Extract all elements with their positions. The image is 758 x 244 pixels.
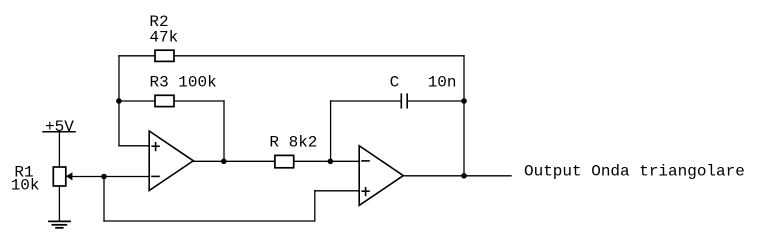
svg-text:R3 100k: R3 100k xyxy=(150,73,217,91)
wire potentiometer bottom to ground xyxy=(58,186,60,221)
svg-text:+5V: +5V xyxy=(45,118,74,136)
ground xyxy=(49,221,70,227)
svg-text:C: C xyxy=(390,73,400,91)
wire U1 output to R xyxy=(193,160,275,162)
wire R3 down to U1 output xyxy=(223,101,225,161)
wire op-amp U1 inverting input xyxy=(104,176,149,178)
wire R to U2 inverting input xyxy=(294,160,360,162)
node junction output xyxy=(461,173,467,179)
wire wiper node down xyxy=(103,177,105,222)
svg-text:47k: 47k xyxy=(149,28,178,46)
wire node to R3 xyxy=(119,100,155,102)
node junction capacitor right xyxy=(461,98,467,104)
node junction capacitor branch xyxy=(328,159,334,165)
svg-text:Output Onda triangolare: Output Onda triangolare xyxy=(524,163,745,181)
wire R3 right xyxy=(174,100,224,102)
wire right vertical xyxy=(463,56,465,176)
wire op-amp U2 non-inverting input xyxy=(315,190,359,192)
wire capacitor branch vertical xyxy=(330,101,332,161)
svg-text:R 8k2: R 8k2 xyxy=(269,133,317,151)
wire to capacitor left plate xyxy=(331,100,402,102)
potentiometer R1 wiper arrow xyxy=(66,172,73,180)
svg-text:10n: 10n xyxy=(428,73,457,91)
node junction U1 output xyxy=(221,159,227,165)
wire potentiometer wiper xyxy=(72,176,104,178)
op-amp U2 xyxy=(359,146,403,206)
resistor R 8k2 xyxy=(275,155,294,167)
wire R2 to top right corner xyxy=(174,55,464,57)
wire left feedback vertical xyxy=(118,56,120,146)
svg-text:10k: 10k xyxy=(11,177,40,195)
node junction R2/R3 xyxy=(116,98,122,104)
wire bottom feedback horizontal xyxy=(104,220,315,222)
op-amp U1 xyxy=(149,131,193,191)
resistor R2 xyxy=(155,50,174,61)
potentiometer R1 body xyxy=(53,167,66,186)
wire +5V to potentiometer xyxy=(58,132,60,167)
wire op-amp U1 non-inverting input xyxy=(119,145,149,147)
power +5V rail underline xyxy=(43,131,75,133)
wire top left to R2 xyxy=(119,55,155,57)
wire feedback step vertical xyxy=(314,191,316,221)
resistor R3 xyxy=(155,95,174,106)
wire capacitor right plate to node xyxy=(407,100,464,102)
node junction wiper xyxy=(101,174,107,180)
capacitor C xyxy=(401,94,407,108)
wire U2 output xyxy=(403,175,511,177)
